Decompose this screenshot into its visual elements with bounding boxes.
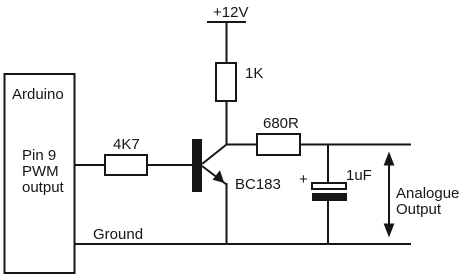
svg-text:+12V: +12V xyxy=(213,4,248,21)
wire: output node down to capacitor C1 xyxy=(327,145,329,184)
svg-text:BC183: BC183 xyxy=(235,176,281,193)
resistor R3 680R xyxy=(257,134,300,155)
transistor Q1 collector lead xyxy=(202,145,227,165)
svg-text:Pin 9: Pin 9 xyxy=(22,147,56,164)
svg-text:4K7: 4K7 xyxy=(113,136,140,153)
wire: +12V to R2 xyxy=(226,22,228,63)
svg-text:Arduino: Arduino xyxy=(12,86,64,103)
capacitor C1 negative plate xyxy=(312,193,347,201)
power terminal +12V bar xyxy=(207,21,246,23)
label "Pin 9 PWM output" xyxy=(22,147,65,196)
Arduino module box xyxy=(5,74,75,273)
resistor R2 1K xyxy=(216,63,236,101)
svg-text:PWM: PWM xyxy=(22,163,59,180)
svg-text:+: + xyxy=(299,171,308,188)
label Analogue Output xyxy=(396,185,459,218)
svg-text:Ground: Ground xyxy=(93,226,143,243)
wire: collector node to R3 xyxy=(226,144,258,146)
svg-text:Analogue: Analogue xyxy=(396,185,459,202)
capacitor C1 positive plate xyxy=(312,183,346,189)
svg-text:output: output xyxy=(22,179,65,196)
analogue output span arrow xyxy=(384,152,395,238)
svg-text:1uF: 1uF xyxy=(346,167,372,184)
transistor Q1 base bar xyxy=(192,139,202,192)
svg-text:1K: 1K xyxy=(245,65,263,82)
wire: Arduino pin 9 to resistor R1 xyxy=(75,164,106,166)
wire: C1 to ground rail xyxy=(327,201,329,244)
wire: Q1 emitter to ground rail xyxy=(226,183,228,244)
ground rail xyxy=(75,243,412,245)
wire: R1 to Q1 base xyxy=(147,164,192,166)
resistor R1 4K7 xyxy=(105,155,147,175)
svg-text:680R: 680R xyxy=(263,115,299,132)
svg-text:Output: Output xyxy=(396,201,442,218)
transistor Q1 emitter lead with arrow xyxy=(202,166,227,185)
wire: R2 to collector node xyxy=(226,101,228,146)
wire: R3 to output rail xyxy=(300,144,411,146)
